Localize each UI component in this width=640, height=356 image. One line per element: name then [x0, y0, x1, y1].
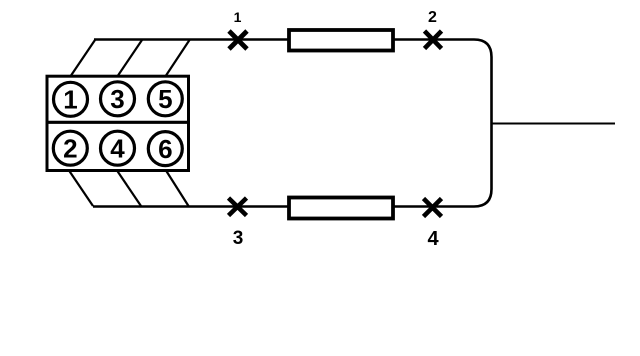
plug wire 1 (top-left diagonal)	[71, 40, 95, 76]
cylinder 4	[101, 131, 135, 165]
plug wire 4 (bottom-middle diagonal)	[117, 171, 141, 207]
plug wire 3 (top-middle diagonal)	[118, 40, 142, 76]
crossmark 4	[424, 199, 442, 217]
crossmark 1	[229, 31, 247, 49]
svg-text:6: 6	[158, 134, 172, 164]
plug wire 6 (bottom-right diagonal)	[166, 171, 189, 207]
svg-text:4: 4	[427, 228, 439, 250]
svg-text:5: 5	[158, 84, 172, 114]
svg-text:1: 1	[63, 85, 77, 115]
crossmark 2	[425, 31, 442, 49]
crossmark 3	[229, 198, 247, 216]
output line	[492, 123, 615, 125]
svg-text:2: 2	[63, 133, 77, 163]
cylinder 1	[54, 82, 88, 116]
plug wire 2 (bottom-left diagonal)	[69, 171, 93, 207]
cylinder 5	[148, 82, 182, 116]
suppressor block bottom	[289, 198, 393, 219]
cylinder 6	[148, 132, 182, 166]
svg-text:3: 3	[233, 228, 244, 249]
connector block outline	[47, 76, 189, 170]
suppressor block top	[289, 30, 393, 51]
plug wire 5 (top-right diagonal)	[166, 40, 190, 76]
cylinder 3	[101, 82, 135, 116]
cylinder 2	[53, 131, 87, 165]
connector block divider	[46, 121, 190, 124]
harness wire loop	[93, 40, 492, 207]
svg-text:2: 2	[428, 9, 437, 26]
svg-text:3: 3	[110, 84, 124, 114]
svg-text:1: 1	[234, 9, 242, 25]
svg-text:4: 4	[110, 133, 125, 163]
